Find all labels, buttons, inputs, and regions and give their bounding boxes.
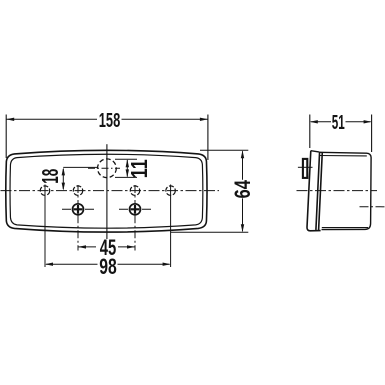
screw axis dash right: [360, 206, 385, 208]
hole right inner: [130, 185, 139, 251]
svg-text:51: 51: [332, 111, 345, 134]
dimension 64 vertical line with arrows: [171, 150, 249, 232]
side view lens front edge: [307, 151, 321, 231]
extension line 158 right: [207, 115, 209, 161]
svg-text:18: 18: [37, 169, 63, 184]
dimension 51 line with arrows: [310, 120, 372, 123]
lamp front view outer outline: [6, 150, 207, 232]
screw left: [62, 204, 94, 215]
hole left outer: [40, 185, 49, 268]
svg-text:64: 64: [230, 179, 255, 198]
lug axis line: [298, 166, 313, 168]
side view body top inner line: [319, 155, 367, 157]
side view lens joint double line: [316, 152, 322, 231]
side view body bottom inner line: [322, 227, 368, 229]
screw right: [119, 204, 151, 215]
dashed circle (lens window): [98, 159, 117, 178]
dimension 98 line with arrows: [45, 263, 171, 266]
side view mounting lug: [303, 159, 307, 178]
dimension 45 line with arrows: [78, 245, 135, 248]
circle horizontal axis dash-dot: [88, 167, 120, 169]
extension line 51 left: [309, 115, 311, 149]
hole right outer: [166, 185, 175, 268]
side view centerline: [297, 190, 378, 192]
dimension 11 vertical line with arrows: [115, 159, 137, 177]
extension line 158 left: [5, 115, 7, 159]
extension line 51 right: [371, 115, 373, 153]
svg-text:98: 98: [99, 254, 117, 279]
dimension 158 line with arrows: [6, 118, 208, 121]
lamp front view inner bezel: [10, 154, 203, 228]
dimension 18 vertical line with arrows: [62, 167, 98, 190]
vertical center axis line: [106, 144, 108, 239]
side view body outline: [319, 152, 371, 229]
side view lens top edge: [311, 151, 319, 152]
hole left inner: [73, 185, 82, 251]
svg-text:11: 11: [126, 159, 152, 178]
svg-text:158: 158: [99, 110, 121, 132]
horizontal centerline front view: [1, 190, 220, 192]
